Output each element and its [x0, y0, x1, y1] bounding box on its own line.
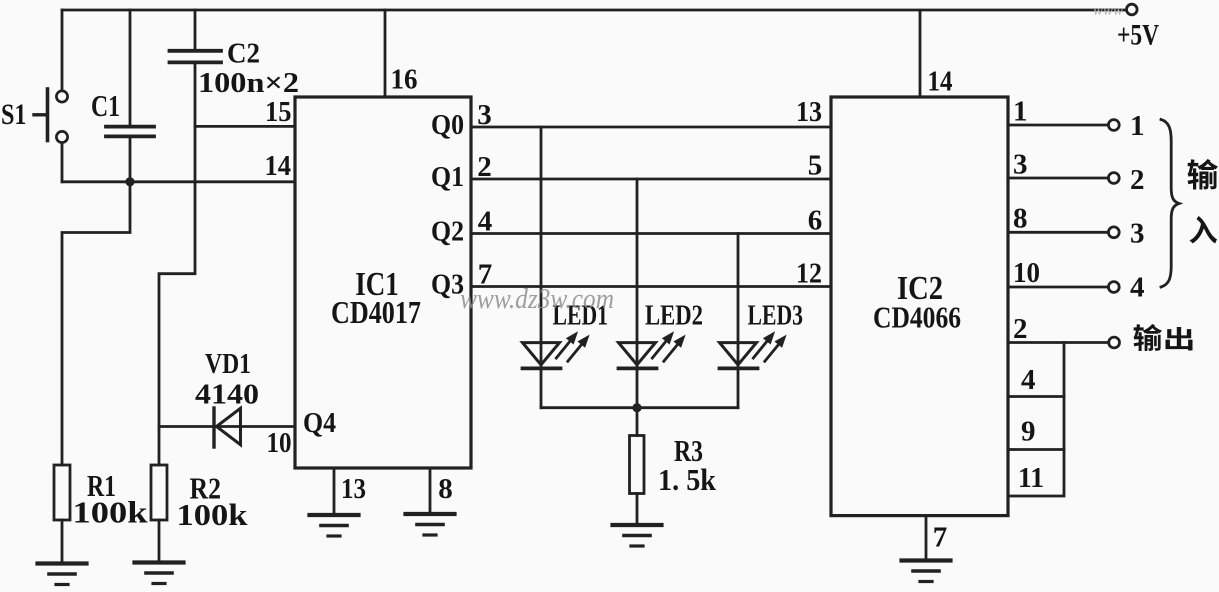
- wire net Q2 (IC1 pin4 to IC2 pin6): [471, 232, 831, 235]
- svg-text:Q2: Q2: [431, 216, 464, 248]
- svg-text:Q0: Q0: [431, 109, 464, 141]
- wire IC1 pin13 to ground: [333, 468, 336, 515]
- svg-text:8: 8: [438, 473, 453, 505]
- wire C2 down: [159, 64, 195, 465]
- wire LED1 branch: [540, 127, 543, 408]
- svg-text:12: 12: [796, 258, 822, 290]
- wire R3 to ground: [636, 494, 639, 525]
- LED LED1: [523, 331, 590, 368]
- wire IC2 pin8 to terminal 3: [1008, 231, 1108, 234]
- svg-text:16: 16: [391, 64, 418, 96]
- wire rail to IC1 pin16: [384, 10, 387, 97]
- terminal input 2: [1108, 173, 1119, 184]
- wire IC1 pin8 to ground: [429, 468, 432, 514]
- terminal input 3: [1108, 227, 1119, 238]
- wire IC2 pin9 to bus: [1008, 448, 1064, 451]
- svg-text:10: 10: [267, 427, 292, 459]
- svg-text:3: 3: [477, 99, 492, 131]
- svg-text:3: 3: [1013, 149, 1028, 181]
- svg-text:+5V: +5V: [1117, 19, 1159, 52]
- terminal output: [1109, 337, 1120, 348]
- ground (R3): [613, 525, 662, 546]
- wire net Q0 (IC1 pin3 to IC2 pin13): [471, 126, 831, 129]
- label output 输: [1134, 324, 1163, 351]
- wire LED cathode bus: [541, 406, 738, 409]
- node A junction dot: [125, 177, 134, 186]
- svg-text:13: 13: [341, 473, 366, 505]
- svg-text:9: 9: [1021, 416, 1036, 448]
- wire IC2 pin10 to terminal 4: [1008, 286, 1108, 289]
- terminal input 1: [1108, 120, 1119, 131]
- svg-text:5: 5: [808, 150, 823, 182]
- ground (IC1 pin13): [310, 515, 359, 536]
- IC IC2 CD4066 box: [831, 97, 1008, 516]
- svg-text:1: 1: [1013, 96, 1028, 128]
- wire control bus pins 2/4/9/11: [1008, 343, 1064, 497]
- svg-text:7: 7: [933, 522, 948, 554]
- svg-text:S1: S1: [1, 98, 27, 131]
- wire R2 to ground: [158, 520, 161, 562]
- switch S1: [34, 89, 68, 143]
- resistor R2: [151, 465, 167, 520]
- svg-text:10: 10: [1013, 257, 1040, 289]
- label input 入: [1190, 216, 1218, 244]
- wire bus to R3: [636, 408, 639, 436]
- svg-text:4140: 4140: [195, 380, 259, 411]
- svg-text:C2: C2: [227, 39, 260, 70]
- svg-text:3: 3: [1130, 218, 1145, 250]
- svg-text:2: 2: [1013, 313, 1028, 345]
- capacitor C2: [170, 51, 222, 63]
- svg-text:100k: 100k: [73, 495, 149, 530]
- svg-text:1: 1: [1130, 110, 1145, 142]
- svg-text:13: 13: [796, 96, 822, 128]
- wire net pin15 (C2 to IC1 pin 15): [195, 125, 295, 128]
- resistor R1: [54, 465, 70, 520]
- ground (R2): [135, 563, 184, 584]
- svg-text:100k: 100k: [177, 497, 249, 532]
- wire IC2 pin7 to ground: [925, 516, 928, 560]
- ground (IC2 pin7): [902, 561, 951, 582]
- wire IC2 pin4 to bus: [1008, 395, 1064, 398]
- wire rail to IC2 pin14: [919, 10, 922, 97]
- svg-text:CD4017: CD4017: [331, 294, 421, 330]
- svg-text:6: 6: [808, 205, 823, 237]
- diode VD1: [214, 408, 241, 447]
- terminal input 4: [1108, 282, 1119, 293]
- wire R1 to ground: [61, 520, 64, 563]
- LED LED3: [720, 331, 787, 368]
- IC IC1 CD4017 box: [295, 97, 471, 468]
- svg-text:LED3: LED3: [748, 300, 804, 332]
- ground (R1): [38, 564, 87, 585]
- wire rail to C1: [129, 10, 132, 125]
- label input 输: [1188, 159, 1218, 190]
- svg-text:LED2: LED2: [645, 300, 703, 332]
- svg-text:100n×2: 100n×2: [198, 67, 299, 99]
- svg-text:Q4: Q4: [303, 407, 336, 439]
- svg-text:14: 14: [928, 66, 953, 98]
- svg-text:Q1: Q1: [431, 161, 464, 193]
- LED LED2: [619, 331, 686, 368]
- svg-text:14: 14: [265, 150, 292, 182]
- svg-text:2: 2: [477, 151, 492, 183]
- svg-text:C1: C1: [91, 88, 120, 123]
- node LED bus junction dot: [632, 403, 641, 412]
- wire node A to R1: [62, 182, 130, 465]
- wire IC2 pin2 to output terminal: [1008, 341, 1109, 344]
- wire net Q3 (IC1 pin7 to IC2 pin12): [471, 285, 831, 288]
- wire rail to S1: [61, 10, 64, 91]
- label output 出: [1166, 327, 1193, 350]
- wire net pin14 (S1/C1 to IC1 pin 14): [62, 180, 295, 183]
- svg-text:11: 11: [1018, 462, 1044, 494]
- wire rail to C2: [194, 10, 197, 50]
- svg-text:4: 4: [1021, 364, 1036, 396]
- wire LED3 branch: [737, 234, 740, 408]
- brace input group: [1161, 120, 1179, 288]
- svg-text:1. 5k: 1. 5k: [658, 462, 717, 497]
- svg-text:4: 4: [478, 206, 493, 238]
- terminal +5V: [1127, 4, 1138, 15]
- wire C1 to node A: [129, 138, 132, 182]
- svg-text:CD4066: CD4066: [873, 300, 961, 335]
- wire S1 to node A: [61, 143, 64, 182]
- wire net Q1 (IC1 pin2 to IC2 pin5): [471, 178, 831, 181]
- ground (IC1 pin8): [406, 514, 455, 535]
- svg-text:VD1: VD1: [205, 349, 251, 380]
- svg-text:15: 15: [265, 96, 292, 128]
- svg-text:www.dz3w.com: www.dz3w.com: [460, 283, 614, 315]
- svg-text:www: www: [1093, 3, 1123, 19]
- wire IC2 pin1 to terminal 1: [1008, 124, 1108, 127]
- svg-text:4: 4: [1130, 272, 1145, 304]
- capacitor C1: [106, 127, 154, 137]
- wire +5V top rail: [62, 9, 1126, 12]
- wire LED2 branch: [636, 179, 639, 408]
- svg-text:8: 8: [1013, 203, 1028, 235]
- resistor R3: [630, 436, 645, 494]
- wire VD1 net (R2 to IC1 pin 10 Q4): [159, 425, 295, 428]
- svg-text:2: 2: [1130, 164, 1145, 196]
- wire IC2 pin3 to terminal 2: [1008, 177, 1108, 180]
